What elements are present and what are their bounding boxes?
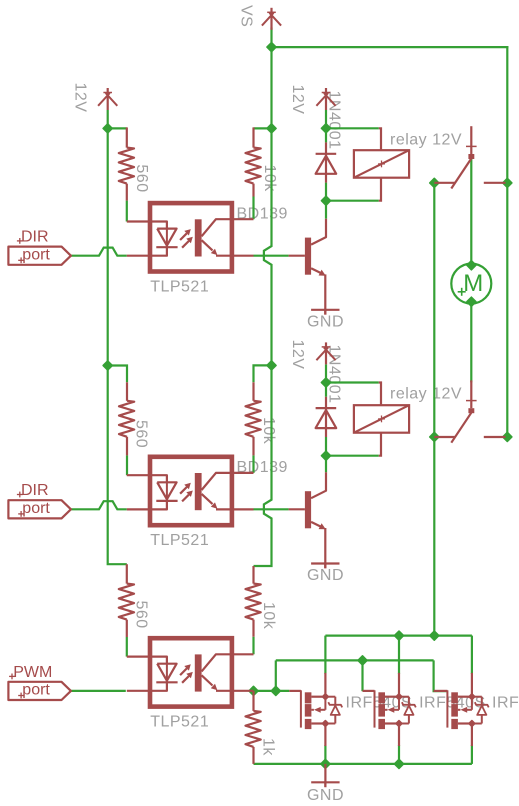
svg-text:560: 560	[132, 601, 149, 629]
resistor R2 10k	[246, 148, 261, 184]
MOSFET Q2 substrate arrow	[385, 709, 388, 711]
svg-text:10k: 10k	[260, 417, 277, 445]
junction S2 right contact	[503, 432, 512, 441]
ground GND stage 2	[311, 562, 339, 564]
MOSFET Q1 body diode	[325, 696, 335, 698]
wire gate drop Q2	[361, 660, 363, 691]
wire 12V supply K2 rail	[325, 365, 327, 384]
optocoupler OK1 phototransistor	[195, 219, 202, 256]
supply 12V arrow (relay K1)	[322, 92, 331, 94]
svg-text:M: M	[463, 270, 483, 297]
junction opto3 emitter / R7	[249, 686, 258, 695]
MOSFET Q3 drain link	[458, 696, 472, 698]
MOSFET Q3 gate bar	[446, 690, 448, 727]
ground GND bottom	[324, 764, 326, 787]
wire VS rail vertical with hops	[254, 47, 272, 566]
resistor R6 10k lead	[252, 566, 254, 584]
relay K2 pin top	[379, 383, 381, 406]
resistor R3 560 lead lower	[126, 437, 128, 456]
MOSFET Q1 gate bar	[300, 690, 302, 727]
svg-text:port: port	[22, 246, 50, 263]
transistor T1 BD139	[289, 255, 305, 257]
supply VS arrow	[267, 11, 276, 13]
svg-text:10k: 10k	[261, 165, 278, 193]
wire source Q1 to bus	[324, 745, 326, 764]
resistor R5 560	[119, 584, 134, 620]
svg-text:1k: 1k	[260, 738, 277, 756]
resistor R2 10k lead lower	[252, 184, 254, 197]
ground GND stage 1	[311, 309, 339, 311]
optocoupler OK2 pin 4 (emitter, right bottom)	[216, 508, 254, 510]
svg-text:IRF540S: IRF540S	[492, 695, 519, 712]
optocoupler OK3 pin 2 (cathode, left bottom)	[127, 690, 151, 692]
junction 12V rail / R1	[103, 124, 112, 133]
wire 560 R1 to anode	[126, 201, 128, 222]
resistor R7 1k lead lower	[252, 747, 254, 764]
junction VS top	[267, 43, 276, 52]
wire 560 R3 to anode	[126, 455, 128, 475]
optocoupler OK2 pin 2 (cathode, left bottom)	[127, 508, 151, 510]
wire switch S1 common to motor	[470, 159, 472, 265]
junction T1 collector node	[321, 196, 330, 205]
wire diode D1 net upper	[325, 128, 327, 142]
resistor R5 560 lead	[126, 564, 128, 583]
MOSFET Q2 drain pin	[398, 673, 400, 698]
wire relay K2 bottom return	[326, 455, 379, 457]
wire opto2 emitter to BD139 T2 base	[254, 508, 289, 510]
svg-text:TLP521: TLP521	[150, 532, 209, 549]
wire 10k R2 to collector	[252, 197, 254, 220]
optocoupler OK1 light arrows	[180, 233, 187, 240]
MOSFET Q3 source link	[458, 722, 472, 724]
transistor T2 BD139	[289, 508, 305, 510]
relay K1 pin bottom	[379, 178, 381, 201]
svg-text:relay 12V: relay 12V	[390, 386, 462, 403]
optocoupler OK2 phototransistor	[195, 473, 202, 510]
MOSFET Q2 source link	[385, 722, 399, 724]
relay K2 coil	[354, 405, 409, 433]
resistor R7 1k lead	[252, 691, 254, 711]
MOSFET Q2 drain link	[385, 696, 399, 698]
optocoupler OK1 pin 2 (cathode, left bottom)	[127, 255, 151, 257]
optocoupler OK1 pin 1 (anode, left top)	[127, 220, 151, 222]
diode D1 1N4001	[325, 142, 327, 182]
junction drain bus / Q2	[394, 631, 403, 640]
optocoupler OK1 pin 3 (collector, right top)	[231, 218, 254, 220]
svg-text:GND: GND	[307, 567, 344, 584]
wire 10k R4 to collector	[252, 455, 254, 473]
resistor R4 10k lead	[252, 382, 254, 401]
wire drain bus	[325, 634, 472, 636]
MOSFET Q1 channel bars	[305, 692, 312, 703]
junction K2 rail / D2	[321, 378, 330, 387]
MOSFET Q3 drain pin	[471, 673, 473, 698]
svg-text:560: 560	[133, 164, 150, 192]
wire right rail down	[506, 46, 508, 437]
optocoupler OK1 pin 4 (emitter, right bottom)	[216, 255, 254, 257]
svg-text:12V: 12V	[289, 85, 306, 115]
port DIR1 flag	[8, 247, 71, 265]
svg-text:12V: 12V	[72, 83, 89, 113]
MOSFET Q3 substrate arrow	[458, 709, 461, 711]
MOSFET Q1 drain link	[311, 696, 325, 698]
resistor R7 1k	[246, 711, 261, 747]
junction drain bus / left rail	[430, 631, 439, 640]
resistor R5 560 lead lower	[126, 620, 128, 637]
wire diode D1 net lower	[325, 183, 327, 201]
svg-text:TLP521: TLP521	[150, 713, 209, 730]
wire 560 R5 to anode	[126, 637, 128, 657]
MOSFET Q3 source pin	[471, 724, 473, 747]
resistor R4 10k	[246, 401, 261, 437]
MOSFET Q1 drain pin	[324, 673, 326, 698]
motor M1 plus mark	[458, 291, 466, 293]
svg-text:TLP521: TLP521	[150, 279, 209, 296]
optocoupler OK3 box	[150, 638, 232, 706]
wire source Q2 to bus	[398, 745, 400, 764]
switch S1 relay contact	[470, 126, 472, 154]
junction gate riser	[271, 686, 280, 695]
MOSFET Q2 channel bars	[378, 692, 385, 703]
resistor R6 10k lead lower	[252, 620, 254, 637]
svg-text:1N4001: 1N4001	[325, 91, 342, 150]
resistor R6 10k	[246, 584, 261, 620]
resistor R3 560	[119, 401, 134, 437]
wire PWM port to opto	[71, 690, 126, 692]
junction T2 collector node	[321, 451, 330, 460]
wire DIR1 port to opto with hop	[71, 248, 127, 256]
junction source bus / GND	[321, 759, 330, 768]
junction VS rail / R4	[267, 361, 276, 370]
wire drain drop Q3	[471, 636, 473, 674]
svg-text:GND: GND	[307, 313, 344, 330]
wire drain drop Q2	[398, 636, 400, 674]
MOSFET Q2 gate bar	[374, 690, 376, 727]
wire gate bus horizontal	[276, 659, 434, 661]
svg-text:relay 12V: relay 12V	[390, 131, 462, 148]
relay K1 pin top	[379, 128, 381, 150]
wire 12V supply K1 rail	[325, 110, 327, 129]
wire drain drop Q1	[324, 636, 326, 674]
wire opto1 emitter to BD139 T1 base	[254, 255, 289, 257]
optocoupler OK2 internal LED	[151, 475, 167, 482]
wire BD139 T2 collector	[325, 455, 327, 473]
MOSFET Q1 source link	[311, 722, 325, 724]
wire 560 R3 stub	[108, 366, 127, 383]
MOSFET Q1 source pin	[324, 724, 326, 747]
svg-text:PWM: PWM	[13, 664, 52, 681]
MOSFET Q1 gate pin	[289, 690, 301, 692]
relay K2 pin bottom	[379, 433, 381, 456]
diode D2 1N4001	[325, 397, 327, 437]
wire 560 R1 stub	[108, 127, 127, 129]
switch S2 relay contact	[470, 380, 472, 408]
svg-text:1N4001: 1N4001	[325, 345, 342, 404]
MOSFET Q2 gate pin	[363, 690, 375, 692]
optocoupler OK1 box	[150, 203, 232, 271]
junction S1 right contact	[503, 178, 512, 187]
MOSFET Q1 substrate arrow	[311, 709, 314, 711]
svg-text:VS: VS	[237, 5, 254, 27]
MOSFET Q3 channel bars	[451, 692, 458, 703]
resistor R1 560 lead	[126, 127, 128, 147]
junction source bus / Q2	[394, 759, 403, 768]
svg-text:port: port	[22, 500, 50, 517]
wire gate bus riser	[275, 660, 277, 691]
junction S1 left contact	[430, 178, 439, 187]
junction S2 left contact	[430, 432, 439, 441]
optocoupler OK2 box	[150, 457, 232, 525]
optocoupler OK2 light arrows	[180, 487, 187, 494]
optocoupler OK3 internal LED	[151, 657, 167, 664]
relay K1 coil	[354, 150, 409, 178]
optocoupler OK2 pin 1 (anode, left top)	[127, 474, 151, 476]
wire left motor rail	[433, 183, 435, 636]
junction gate bus / Q2	[358, 656, 367, 665]
wire relay K1 bottom return	[326, 200, 379, 202]
optocoupler OK3 pin 3 (collector, right top)	[231, 653, 254, 655]
junction 12V rail / R3	[103, 361, 112, 370]
optocoupler OK3 pin 1 (anode, left top)	[127, 655, 151, 657]
wire 10k R4 stub	[254, 365, 272, 382]
svg-text:DIR: DIR	[21, 482, 49, 499]
wire BD139 T1 collector	[325, 201, 327, 219]
svg-text:DIR: DIR	[21, 229, 49, 246]
wire diode D2 net upper	[325, 383, 327, 397]
supply 12V arrow (relay K2)	[322, 346, 331, 348]
svg-text:GND: GND	[307, 787, 344, 804]
resistor R1 560	[119, 148, 134, 184]
wire DIR2 port to opto with hop	[71, 501, 127, 509]
wire gate drop Q3	[434, 660, 448, 691]
wire 10k R6 to collector	[252, 637, 254, 655]
wire relay K2 top feed	[326, 381, 379, 383]
wire 12V rail vertical	[108, 110, 127, 564]
junction VS rail / R2	[267, 124, 276, 133]
junction motor bottom	[467, 297, 476, 306]
resistor R3 560 lead	[126, 382, 128, 401]
optocoupler OK3 pin 4 (emitter, right bottom)	[216, 690, 254, 692]
svg-text:560: 560	[133, 420, 150, 448]
svg-text:port: port	[22, 682, 50, 699]
port DIR2 flag	[8, 500, 71, 518]
supply 12V arrow (left rail)	[103, 92, 112, 94]
wire VS supply to top node	[270, 28, 272, 49]
wire diode D2 net lower	[325, 437, 327, 456]
svg-text:10k: 10k	[260, 602, 277, 630]
resistor R4 10k lead lower	[252, 437, 254, 456]
resistor R2 10k lead	[252, 127, 254, 147]
wire source bus	[254, 763, 472, 765]
wire source Q3 to bus	[471, 745, 473, 764]
optocoupler OK1 internal LED	[151, 222, 167, 229]
MOSFET Q3 body diode	[472, 696, 482, 698]
MOSFET Q3 gate pin	[434, 690, 448, 692]
MOSFET Q2 source pin	[398, 724, 400, 747]
wire 10k R2 stub	[254, 127, 272, 129]
node PWM emitter row	[254, 690, 290, 692]
port PWM flag	[8, 682, 71, 700]
motor M1 circle	[451, 264, 491, 304]
optocoupler OK3 phototransistor	[195, 654, 202, 691]
junction motor top	[467, 261, 476, 270]
junction K1 rail / D1	[321, 124, 330, 133]
wire motor to switch S2	[470, 302, 472, 383]
svg-text:12V: 12V	[289, 340, 306, 370]
resistor R1 560 lead lower	[126, 184, 128, 201]
MOSFET Q2 body diode	[399, 696, 409, 698]
optocoupler OK2 pin 3 (collector, right top)	[231, 472, 254, 474]
wire relay K1 top feed	[326, 127, 379, 129]
optocoupler OK3 light arrows	[180, 668, 187, 675]
wire top horizontal VS to right rail	[270, 46, 508, 48]
